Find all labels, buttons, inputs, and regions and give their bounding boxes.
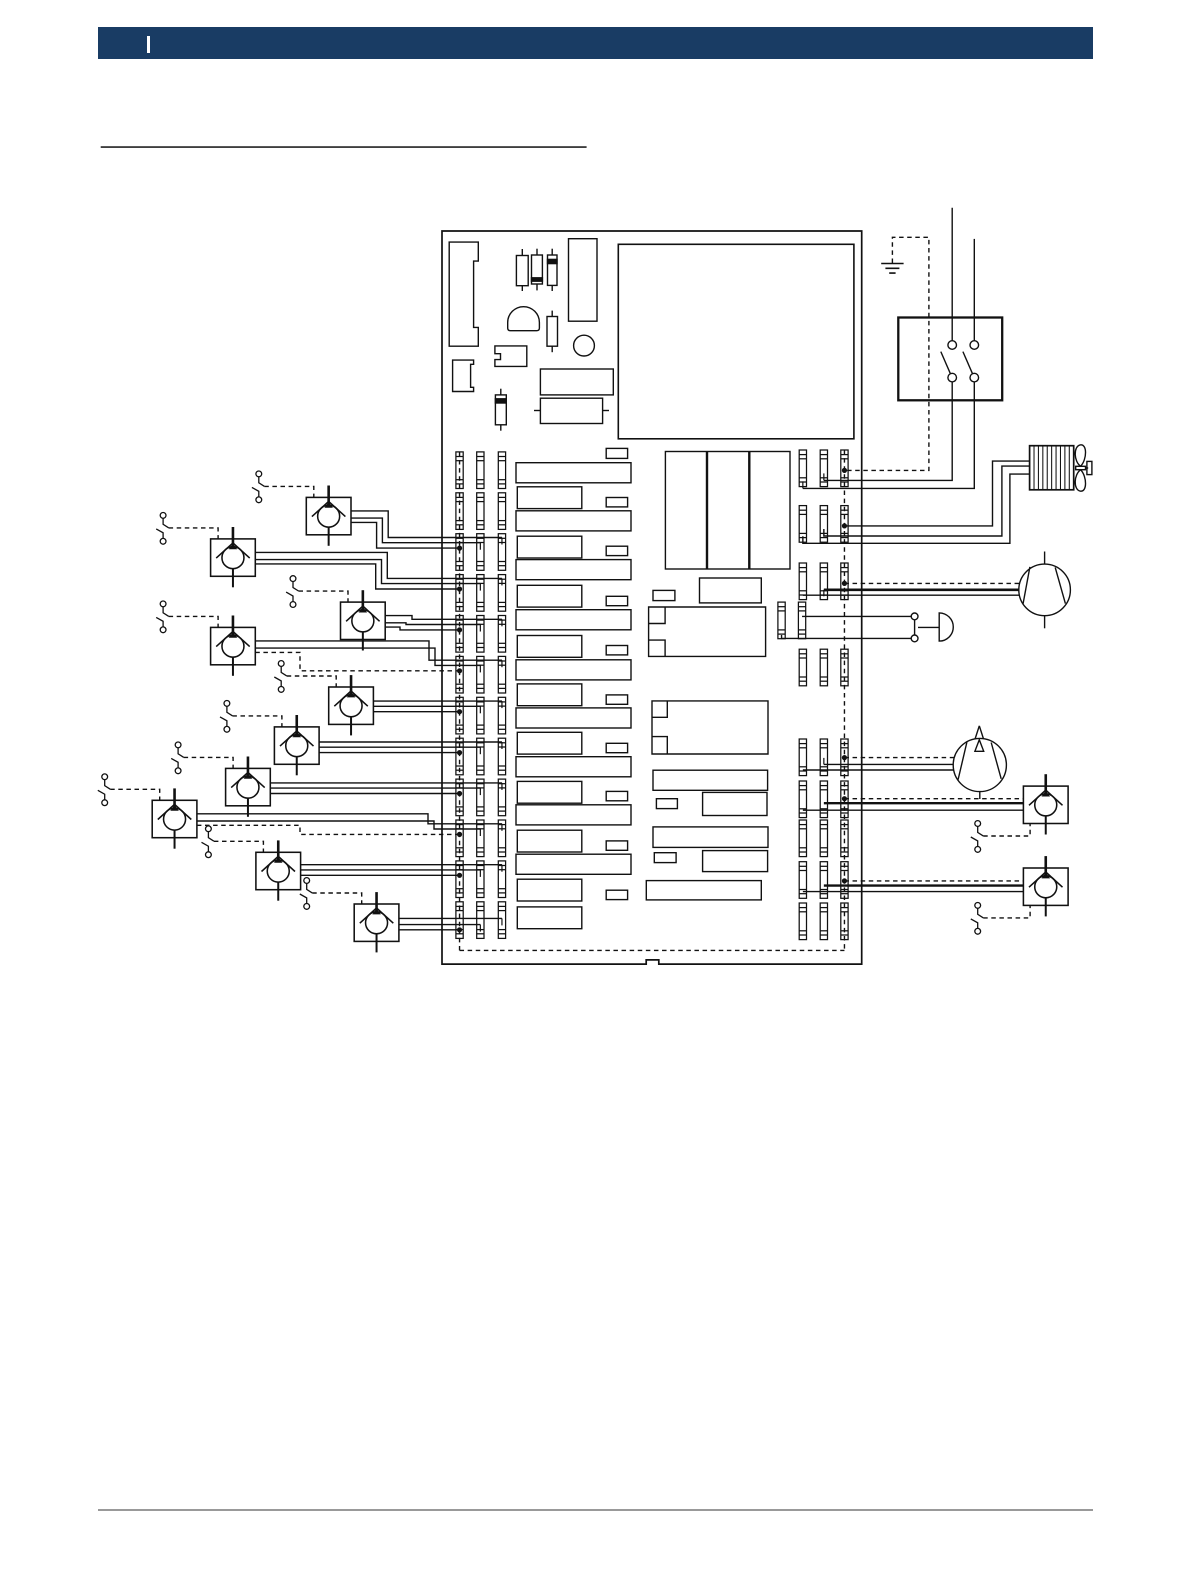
connector pin ST9-1	[456, 779, 463, 816]
wire gas valve Y5 b	[373, 705, 480, 707]
wire gas valve Y6 b	[319, 746, 480, 748]
wire gas valve Y9 a	[301, 864, 502, 866]
connector X2	[453, 360, 474, 391]
wire gas valve Y2 a	[255, 552, 502, 578]
output relay K16	[606, 695, 627, 704]
wire fan 1 from pin SRB-3	[844, 461, 1029, 526]
gas valve Y12	[1023, 856, 1068, 916]
control line S4 to gas valve Y4	[169, 616, 219, 627]
wire fan 3 from pin SRB-1	[803, 474, 1030, 543]
horn terminals	[911, 613, 918, 642]
thermostat switch S4	[156, 601, 168, 633]
relay K1	[569, 239, 598, 322]
footer rule	[98, 1509, 1093, 1511]
connector pin ST6-3	[498, 656, 505, 693]
output relay K17	[606, 743, 627, 752]
junction dot gas valve Y8	[457, 832, 462, 837]
relay K3	[700, 578, 762, 603]
connector pin ST11-2	[477, 861, 484, 898]
wire fan 2 from pin SRB-2	[824, 466, 1030, 536]
wire gas valve Y2 b	[255, 560, 480, 584]
dashed wire diverter from pin SRF-3	[844, 757, 953, 759]
wire gas valve Y10 a	[399, 917, 502, 919]
connector pin ST4-2	[477, 575, 484, 612]
connector pin ST11-3	[498, 861, 505, 898]
pin stub SRC-2	[823, 590, 825, 597]
mains line N	[973, 239, 975, 341]
thermostat switch S2	[156, 513, 168, 545]
output relay K18	[606, 791, 627, 800]
connector pin SRJ-2	[820, 903, 827, 940]
wire gas valve Y1 a	[351, 511, 502, 538]
dashed internal ground bus bottom	[460, 949, 845, 951]
connector pin ST9-2	[477, 779, 484, 816]
relay K5	[703, 792, 767, 815]
junction dot pump wire	[842, 581, 847, 586]
junction dot Y11 wire	[842, 796, 847, 801]
pin stub SRA-2	[823, 473, 825, 480]
connector pin SRE-3	[841, 649, 848, 686]
pin stub gas valve Y10 b	[479, 925, 481, 932]
microcontroller module U1	[618, 244, 854, 438]
connector pin SRE-2	[820, 649, 827, 686]
connector pin SRA-1	[799, 450, 806, 487]
thermostat switch S12	[971, 903, 983, 935]
diode V1	[551, 249, 553, 291]
gas valve Y8	[152, 788, 197, 848]
connector pin SRA-2	[820, 450, 827, 487]
control line S9 to gas valve Y9	[214, 841, 264, 852]
connector pin ST2-1	[456, 493, 463, 530]
wire Y11 b	[824, 802, 1024, 804]
title underline	[101, 146, 587, 148]
opto coupler B10	[517, 907, 582, 929]
control line S7 to gas valve Y7	[184, 757, 234, 768]
connector pin ST2-3	[498, 493, 505, 530]
driver block A6	[516, 708, 631, 728]
wire Y11 c	[803, 809, 1024, 811]
connector pin ST7-2	[477, 697, 484, 734]
header bar	[98, 27, 1093, 59]
pin stub gas valve Y5 b	[479, 706, 481, 713]
earth ground symbol	[881, 264, 903, 274]
IC U2	[495, 346, 527, 367]
junction dot Y12 wire	[842, 878, 847, 883]
control line S2 to gas valve Y2	[169, 528, 219, 539]
connector pin ST10-1	[456, 820, 463, 857]
wire gas valve Y7 c	[270, 793, 459, 795]
control line S11 to Y11	[983, 824, 1030, 837]
opto coupler B8	[517, 830, 582, 852]
wire gas valve Y3 a	[385, 616, 502, 620]
driver block A8	[516, 805, 631, 825]
wire gas valve Y9 b	[301, 869, 481, 871]
wire gas valve Y7 a	[270, 782, 502, 784]
gas valve Y7	[226, 757, 271, 817]
driver block A7	[516, 757, 631, 777]
connector pin ST10-2	[477, 820, 484, 857]
connector pin ST10-3	[498, 820, 505, 857]
pin stub gas valve Y9 b	[479, 870, 481, 877]
connector pin ST4-3	[498, 575, 505, 612]
junction dot gas valve Y5	[457, 709, 462, 714]
crystal G1	[534, 410, 540, 412]
control line S5 to gas valve Y5	[287, 676, 337, 687]
control line S10 to gas valve Y10	[312, 893, 362, 904]
connector pin ST1-2	[477, 452, 484, 489]
connector pin SRH-3	[841, 820, 848, 857]
pin stub gas valve Y6 a	[501, 742, 503, 749]
relay K4	[653, 770, 768, 790]
gas valve Y3	[341, 590, 386, 650]
wire pump from pin SRC-1	[803, 594, 1020, 596]
connector pin SRF-1	[799, 739, 806, 776]
connector pin ST1-1	[456, 452, 463, 489]
dashed wire Y11 from pin	[844, 798, 1023, 800]
relay K2	[540, 369, 613, 395]
wire Y12 c	[803, 891, 1024, 893]
gas valve Y1	[306, 486, 351, 546]
wire gas valve Y3 b	[385, 623, 480, 625]
gas valve Y5	[329, 675, 374, 735]
opto coupler B1	[517, 487, 582, 509]
output relay K10	[606, 448, 627, 458]
junction dot fan wire	[842, 523, 847, 528]
diverter motor M3	[953, 726, 1006, 799]
switch S11 contact 1	[941, 341, 957, 382]
output relay K15	[606, 646, 627, 655]
wire gas valve Y10 b	[399, 924, 480, 926]
connector pin SRC-2	[820, 563, 827, 600]
connector pin ST8-3	[498, 738, 505, 775]
output relay K19	[606, 841, 627, 850]
wire horn from pin SRD-2	[802, 615, 911, 617]
header separator tick	[147, 36, 150, 53]
pin stub gas valve Y8 a	[501, 824, 503, 831]
connector pin SRD-1	[778, 602, 785, 639]
pin stub gas valve Y5 a	[501, 701, 503, 708]
connector pin SRJ-1	[799, 903, 806, 940]
connector pin ST6-2	[477, 656, 484, 693]
thermostat switch S11	[971, 821, 983, 853]
connector pin ST8-1	[456, 738, 463, 775]
pin stub gas valve Y4 b	[479, 665, 481, 672]
opto coupler B5	[517, 684, 582, 706]
pin stub SRF-2	[823, 758, 825, 765]
connector pin ST12-1	[456, 902, 463, 939]
pin stub gas valve Y4 a	[501, 660, 503, 667]
pin stub gas valve Y1 a	[501, 538, 503, 545]
opto coupler B2	[517, 536, 582, 558]
control line S12 to Y12	[983, 905, 1030, 918]
junction dot diverter wire	[842, 755, 847, 760]
wire gas valve Y5 a	[373, 700, 502, 702]
diode V2	[500, 389, 502, 431]
resistor R2	[536, 249, 538, 291]
resistor R6	[656, 799, 677, 809]
connector pin ST6-1	[456, 656, 463, 693]
junction dot gas valve Y2	[457, 586, 462, 591]
pin stub gas valve Y6 b	[479, 747, 481, 754]
driver block A9	[516, 854, 631, 874]
pin stub gas valve Y2 b	[479, 584, 481, 591]
connector pin ST7-1	[456, 697, 463, 734]
connector pin SRI-1	[799, 862, 806, 899]
output relay K110	[606, 890, 627, 899]
connector pin SRB-1	[799, 506, 806, 543]
junction dot gas valve Y6	[457, 750, 462, 755]
control line S1 to gas valve Y1	[264, 486, 314, 497]
connector pin ST5-2	[477, 616, 484, 653]
wire switch L to pin SRA-2	[824, 382, 952, 481]
wire gas valve Y4 c	[255, 652, 459, 670]
transformer T1 winding divider 1	[706, 452, 708, 570]
output relay K13	[606, 546, 627, 555]
connector pin SRI-3	[841, 862, 848, 899]
wire gas valve Y5 c	[373, 711, 459, 713]
wire gas valve Y1 c	[351, 522, 460, 548]
dashed wire pump from pin SRC-3	[844, 582, 1019, 584]
thermostat switch S9	[202, 826, 214, 858]
fan impeller	[1075, 445, 1092, 491]
wire pump from pin SRC-2	[824, 588, 1019, 591]
junction dot gas valve Y7	[457, 791, 462, 796]
connector pin ST12-2	[477, 902, 484, 939]
driver block A5	[516, 660, 631, 680]
connector pin ST3-2	[477, 534, 484, 571]
control unit PCB outline	[442, 231, 862, 964]
wire gas valve Y9 c	[301, 874, 460, 876]
control line S6 to gas valve Y6	[232, 716, 282, 727]
fan motor M1 coil	[1030, 446, 1074, 490]
transformer T1 winding divider 2	[748, 452, 750, 570]
output relay K14	[606, 596, 627, 605]
connector X1	[449, 242, 478, 346]
resistor R7	[654, 853, 676, 863]
thermostat switch S7	[171, 742, 183, 774]
junction dot gas valve Y3	[457, 627, 462, 632]
pin stub SRA-1	[802, 481, 804, 488]
gas valve Y2	[211, 527, 256, 587]
connector pin SRJ-3	[841, 903, 848, 940]
connector pin SRF-3	[841, 739, 848, 776]
connector pin SRI-2	[820, 862, 827, 899]
pin stub gas valve Y3 a	[501, 619, 503, 626]
wire gas valve Y8 a	[197, 814, 502, 824]
switch S11 contact 2	[963, 341, 979, 382]
connector pin SRG-3	[841, 781, 848, 818]
wire gas valve Y6 c	[319, 752, 459, 754]
connector pin SRF-2	[820, 739, 827, 776]
connector pin ST5-3	[498, 616, 505, 653]
relay K8	[646, 881, 761, 900]
dashed internal ground bus right	[843, 450, 845, 950]
transformer T1	[665, 452, 790, 570]
connector pin ST3-1	[456, 534, 463, 571]
horn H1	[918, 613, 953, 641]
mains line L	[951, 208, 953, 341]
connector pin ST7-3	[498, 697, 505, 734]
pin stub gas valve Y2 a	[501, 578, 503, 585]
wire gas valve Y4 a	[255, 641, 502, 660]
wire gas valve Y7 b	[270, 787, 480, 789]
connector pin SRH-2	[820, 820, 827, 857]
connector pin ST2-2	[477, 493, 484, 530]
connector pin ST1-3	[498, 452, 505, 489]
connector pin SRA-3	[841, 450, 848, 487]
opto coupler B6	[517, 732, 582, 754]
driver block A1	[516, 463, 631, 483]
opto coupler B3	[517, 585, 582, 607]
wire gas valve Y4 b	[255, 648, 480, 665]
resistor R5	[653, 590, 675, 600]
dashed wire Y12 from pin	[844, 880, 1023, 882]
connector pin SRG-2	[820, 781, 827, 818]
connector pin ST11-1	[456, 861, 463, 898]
wire diverter from pin SRF-2	[824, 763, 953, 765]
thermostat switch S5	[274, 661, 286, 693]
opto coupler B9	[517, 879, 582, 901]
opto coupler B4	[517, 636, 582, 658]
buzzer BZ1	[508, 307, 540, 331]
wire gas valve Y1 b	[351, 518, 480, 543]
junction dot gas valve Y10	[457, 927, 462, 932]
output relay K12	[606, 498, 627, 507]
connector pin SRE-1	[799, 649, 806, 686]
thermostat switch S10	[300, 878, 312, 910]
connector pin SRG-1	[799, 781, 806, 818]
driver block A2	[516, 511, 631, 531]
thermostat switch S1	[252, 471, 264, 503]
junction dot gas valve Y9	[457, 873, 462, 878]
connector pin SRH-1	[799, 820, 806, 857]
wire Y12 b	[824, 884, 1024, 886]
gas valve Y9	[256, 840, 301, 900]
connector pin ST5-1	[456, 616, 463, 653]
wire diverter from pin SRF-1	[803, 769, 954, 771]
resistor R1	[521, 249, 523, 291]
main switch S11 box	[898, 318, 1002, 401]
rectifier module V6	[652, 701, 768, 754]
pin stub gas valve Y10 a	[501, 918, 503, 925]
junction dot earth at pin SRA-3	[842, 468, 847, 473]
pin stub gas valve Y3 b	[479, 625, 481, 632]
pin stub gas valve Y7 a	[501, 783, 503, 790]
wire switch N to pin SRA-1	[803, 382, 974, 489]
gas valve Y4	[211, 616, 256, 676]
heating pump M2	[1019, 552, 1071, 629]
driver block A3	[516, 560, 631, 580]
pin stub gas valve Y1 b	[479, 543, 481, 550]
relay K6	[653, 827, 768, 848]
wire gas valve Y8 c	[197, 825, 460, 834]
gas valve Y6	[274, 715, 319, 775]
thermostat switch S6	[220, 701, 232, 733]
gas valve Y10	[354, 892, 399, 952]
capacitor C1	[574, 335, 595, 356]
wire horn from pin SRD-1	[782, 635, 912, 638]
pin stub gas valve Y8 b	[479, 829, 481, 836]
wire gas valve Y3 c	[385, 627, 459, 630]
thermostat switch S3	[286, 576, 298, 608]
rectifier module V5	[649, 607, 766, 656]
relay K7	[703, 851, 768, 872]
connector pin ST12-3	[498, 902, 505, 939]
driver block A4	[516, 610, 631, 630]
dashed internal ground bus left	[459, 452, 461, 951]
pin stub gas valve Y7 b	[479, 788, 481, 795]
connector pin ST4-1	[456, 575, 463, 612]
junction dot gas valve Y4	[457, 668, 462, 673]
thermostat switch S8	[98, 774, 110, 806]
gas valve Y11	[1023, 774, 1068, 834]
opto coupler B7	[517, 781, 582, 803]
wire gas valve Y8 b	[197, 821, 480, 829]
connector pin ST9-3	[498, 779, 505, 816]
wire gas valve Y6 a	[319, 741, 502, 743]
connector pin ST3-3	[498, 534, 505, 571]
control line S3 to gas valve Y3	[299, 591, 349, 602]
dashed earth wire loop	[844, 237, 928, 470]
connector pin SRD-2	[798, 602, 805, 639]
connector pin SRB-3	[841, 506, 848, 543]
junction dot gas valve Y1	[457, 546, 462, 551]
connector pin ST8-2	[477, 738, 484, 775]
resistor R3	[551, 311, 553, 353]
control line S8 to gas valve Y8	[110, 789, 160, 800]
wire gas valve Y2 c	[255, 564, 459, 589]
connector pin SRC-3	[841, 563, 848, 600]
pin stub gas valve Y9 a	[501, 865, 503, 872]
connector pin SRC-1	[799, 563, 806, 600]
wire gas valve Y10 c	[399, 929, 460, 931]
connector pin SRB-2	[820, 506, 827, 543]
